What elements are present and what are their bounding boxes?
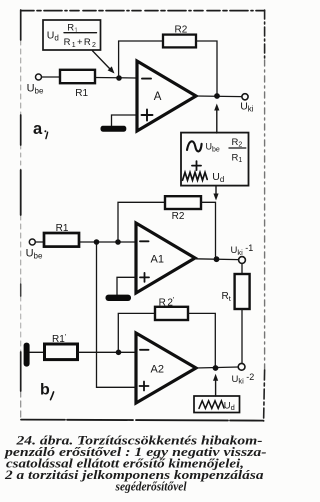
resistor Rt	[235, 274, 250, 309]
svg-text:A1: A1	[151, 254, 164, 266]
svg-text:R2: R2	[172, 211, 185, 222]
wire ground to R1'	[30, 351, 44, 353]
wire noninverting input to ground (circuit a)	[112, 115, 137, 128]
resistor R1'	[45, 344, 78, 360]
svg-text:R1: R1	[75, 88, 88, 99]
wire Ube to R1 (circuit b)	[35, 241, 44, 243]
node 2 (feedback tap A1)	[115, 239, 121, 245]
wire feedback up-left (circuit a)	[119, 41, 163, 76]
node inverting input A	[116, 75, 122, 81]
figure border right	[264, 10, 265, 421]
arrow from formula box to inverting node	[93, 51, 111, 70]
wire R1' to A2 inverting input	[78, 351, 135, 353]
wire node1 down to A2 noninverting input	[97, 244, 137, 387]
wire feedback up (circuit b A1)	[118, 202, 165, 240]
resistor R1 (circuit a)	[60, 70, 95, 83]
output node A	[214, 93, 220, 99]
formula fraction bar	[64, 32, 97, 34]
svg-text:A: A	[154, 91, 162, 103]
svg-text:R2': R2'	[159, 295, 175, 308]
output wire A2	[196, 367, 238, 368]
output wire A	[196, 95, 242, 98]
node 1 (tap to A2)	[94, 239, 100, 245]
sawtooth in Ud box	[199, 401, 224, 409]
wire feedback right-down to output (circuit a)	[196, 41, 217, 94]
wire R1 to op-amp A inverting input	[95, 77, 136, 80]
wire feedback right-down to A1 output	[201, 202, 216, 256]
svg-text:R2: R2	[175, 25, 188, 36]
box Ud (A2 injection)	[194, 396, 240, 413]
sine symbol	[187, 141, 202, 151]
svg-text:Ud: Ud	[224, 401, 235, 413]
wire Ube to R1	[42, 76, 61, 78]
wire Rt down to Uki-2	[241, 309, 243, 363]
wire feedback right-down to A2 output	[188, 313, 215, 365]
ground bar (circuit a)	[101, 126, 127, 132]
ground bar (A1)	[106, 295, 132, 301]
svg-text:R1: R1	[56, 223, 69, 234]
arrow up from Ud box to A2 output node	[215, 379, 217, 396]
wire Uki-1 to Rt	[241, 264, 243, 274]
op-amp A	[137, 61, 196, 131]
output node A2	[213, 365, 219, 371]
op-amp A2	[136, 333, 196, 403]
wire noninverting input to ground (A1)	[117, 277, 136, 295]
svg-text:A2: A2	[151, 364, 164, 376]
svg-text:segéderősítővel: segéderősítővel	[115, 480, 187, 494]
terminal Ube (circuit b)	[29, 239, 35, 245]
output wire A1	[195, 258, 239, 261]
output node A1	[214, 256, 220, 262]
wire feedback up (A2)	[118, 313, 155, 350]
figure border left	[20, 10, 22, 418]
arrow down from signal box to feedback wire	[215, 186, 217, 195]
arrow up from signal box to output node	[216, 109, 218, 134]
figure border bottom	[21, 420, 264, 421]
figure border top	[21, 10, 265, 12]
formula box Ud*R1/(R1+R2)	[43, 20, 101, 50]
sawtooth symbol in signal box	[183, 172, 208, 180]
terminal Uki (circuit a)	[242, 94, 248, 100]
node inverting input A2	[116, 350, 122, 356]
svg-text:R1': R1'	[52, 332, 67, 345]
terminal Uki-1	[239, 257, 246, 264]
terminal Ube (circuit a)	[36, 74, 42, 80]
signal box (Ube R2/R1 + Ud)	[181, 133, 249, 186]
terminal Uki-2	[238, 363, 245, 370]
svg-text:a: a	[33, 120, 43, 138]
wire R1 to A1 inverting input	[79, 241, 135, 243]
resistor R1 (circuit b)	[44, 233, 79, 247]
ground input bar (circuit b A2)	[24, 343, 30, 367]
op-amp A1	[136, 223, 195, 293]
plus symbol in signal box	[192, 165, 201, 167]
resistor R2'	[155, 307, 188, 320]
resistor R2 (circuit b A1)	[165, 196, 201, 209]
svg-text:b: b	[40, 382, 50, 399]
resistor R2 (circuit a)	[163, 35, 196, 48]
